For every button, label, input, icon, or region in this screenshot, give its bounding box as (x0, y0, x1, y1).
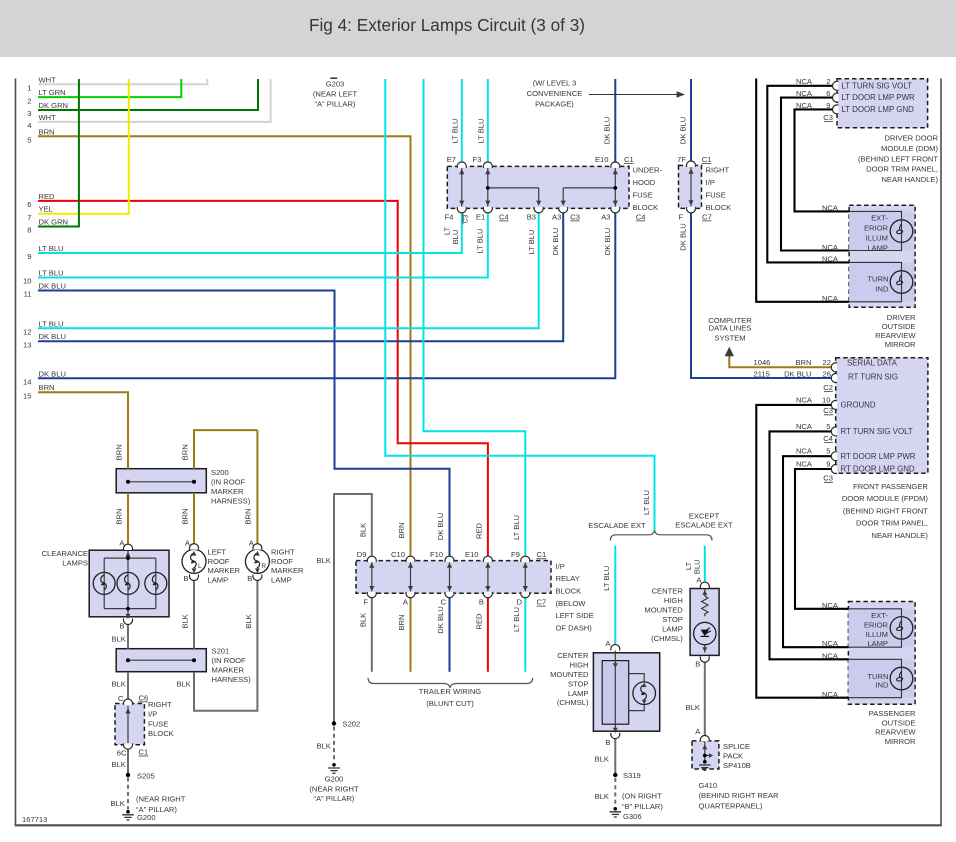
svg-text:FUSE: FUSE (633, 191, 653, 200)
svg-text:SPLICE: SPLICE (723, 742, 750, 751)
svg-text:B: B (183, 574, 188, 583)
svg-text:DRIVER: DRIVER (887, 313, 916, 322)
svg-text:C7: C7 (702, 212, 712, 221)
svg-text:BRN: BRN (39, 127, 55, 136)
svg-text:HARNESS): HARNESS) (212, 675, 252, 684)
svg-text:C6: C6 (139, 693, 149, 702)
svg-text:NCA: NCA (822, 690, 839, 699)
svg-text:BRN: BRN (397, 614, 406, 630)
svg-text:LT BLU: LT BLU (512, 515, 521, 540)
svg-text:167713: 167713 (22, 815, 47, 824)
svg-text:LT BLU: LT BLU (642, 490, 651, 515)
svg-text:LT BLU: LT BLU (527, 229, 536, 254)
svg-text:DK BLU: DK BLU (551, 228, 560, 255)
svg-text:LT BLU: LT BLU (39, 319, 64, 328)
svg-text:BLK: BLK (595, 792, 609, 801)
svg-text:(CHMSL): (CHMSL) (557, 698, 589, 707)
svg-text:STOP: STOP (568, 679, 589, 688)
svg-text:BLK: BLK (112, 760, 126, 769)
svg-text:(BELOW: (BELOW (556, 599, 587, 608)
svg-text:SP410B: SP410B (723, 761, 751, 770)
svg-text:MOUNTED: MOUNTED (644, 606, 683, 615)
svg-text:D9: D9 (357, 550, 367, 559)
svg-text:C3: C3 (823, 113, 833, 122)
svg-text:DOOR MODULE (FPDM): DOOR MODULE (FPDM) (842, 494, 929, 503)
svg-text:B: B (605, 738, 610, 747)
svg-text:DK BLU: DK BLU (603, 117, 612, 144)
svg-text:BLK: BLK (111, 799, 125, 808)
svg-text:NCA: NCA (796, 459, 813, 468)
svg-text:STOP: STOP (662, 615, 683, 624)
svg-text:LT GRN: LT GRN (39, 88, 66, 97)
svg-text:NCA: NCA (822, 651, 839, 660)
svg-text:PASSENGER: PASSENGER (869, 709, 916, 718)
svg-text:BLU: BLU (451, 230, 460, 245)
svg-text:S201: S201 (212, 647, 230, 656)
svg-text:(IN ROOF: (IN ROOF (212, 656, 247, 665)
svg-text:RIGHT: RIGHT (706, 166, 730, 175)
svg-text:TURN: TURN (867, 274, 888, 283)
svg-text:I/P: I/P (556, 562, 565, 571)
svg-text:B3: B3 (527, 212, 536, 221)
svg-text:DK BLU: DK BLU (436, 513, 445, 540)
svg-text:G306: G306 (623, 812, 642, 821)
svg-text:GROUND: GROUND (841, 401, 876, 410)
svg-text:B: B (119, 622, 124, 631)
svg-text:1: 1 (27, 84, 31, 93)
svg-text:WHT: WHT (39, 113, 57, 122)
svg-text:3: 3 (27, 109, 31, 118)
svg-text:BLK: BLK (181, 614, 190, 628)
svg-text:(NEAR RIGHT: (NEAR RIGHT (136, 795, 186, 804)
svg-text:C3: C3 (463, 214, 470, 223)
svg-text:LAMP: LAMP (208, 576, 229, 585)
svg-text:(W/ LEVEL 3: (W/ LEVEL 3 (533, 78, 577, 87)
svg-text:5: 5 (826, 447, 830, 456)
svg-text:Fig 4: Exterior Lamps Circuit: Fig 4: Exterior Lamps Circuit (3 of 3) (309, 15, 585, 35)
svg-text:(CHMSL): (CHMSL) (651, 634, 683, 643)
svg-text:HOOD: HOOD (633, 178, 656, 187)
svg-text:S202: S202 (343, 720, 361, 729)
svg-text:F: F (363, 598, 368, 607)
svg-text:E10: E10 (465, 550, 479, 559)
svg-text:HARNESS): HARNESS) (211, 497, 251, 506)
svg-text:BLU: BLU (693, 559, 702, 574)
svg-text:BLOCK: BLOCK (706, 203, 732, 212)
svg-text:BRN: BRN (39, 383, 55, 392)
svg-text:MODULE (DDM): MODULE (DDM) (881, 144, 938, 153)
svg-text:2: 2 (27, 96, 31, 105)
svg-text:BLK: BLK (244, 614, 253, 628)
svg-text:BLOCK: BLOCK (633, 203, 659, 212)
svg-text:F4: F4 (445, 212, 454, 221)
svg-text:OUTSIDE: OUTSIDE (882, 322, 916, 331)
svg-text:CENTER: CENTER (652, 587, 684, 596)
svg-text:C: C (441, 598, 447, 607)
svg-text:LT BLU: LT BLU (451, 118, 460, 143)
svg-text:B: B (247, 574, 252, 583)
svg-text:B: B (695, 660, 700, 669)
svg-text:S205: S205 (137, 771, 155, 780)
svg-text:SYSTEM: SYSTEM (714, 334, 745, 343)
svg-text:MOUNTED: MOUNTED (550, 670, 589, 679)
svg-text:S319: S319 (623, 771, 641, 780)
svg-text:LAMPS: LAMPS (62, 559, 88, 568)
svg-text:9: 9 (27, 252, 31, 261)
svg-text:DK BLU: DK BLU (679, 117, 688, 144)
svg-text:6C: 6C (117, 748, 127, 757)
svg-text:“A” PILLAR): “A” PILLAR) (315, 100, 356, 109)
svg-text:LT TURN SIG VOLT: LT TURN SIG VOLT (842, 81, 913, 90)
svg-text:ESCALADE EXT: ESCALADE EXT (588, 521, 646, 530)
svg-text:DOOR TRIM PANEL,: DOOR TRIM PANEL, (866, 165, 938, 174)
svg-text:R: R (261, 563, 266, 570)
svg-text:CLEARANCE: CLEARANCE (42, 549, 88, 558)
svg-text:RED: RED (475, 613, 484, 630)
svg-text:4: 4 (27, 121, 31, 130)
svg-text:C1: C1 (139, 747, 149, 756)
svg-text:NCA: NCA (822, 204, 839, 213)
svg-text:DOOR TRIM PANEL,: DOOR TRIM PANEL, (856, 519, 928, 528)
svg-text:LT BLU: LT BLU (477, 118, 486, 143)
svg-text:DK BLU: DK BLU (436, 606, 445, 633)
svg-text:C1: C1 (624, 155, 634, 164)
svg-text:PACK: PACK (723, 752, 743, 761)
svg-text:LT BLU: LT BLU (512, 607, 521, 632)
svg-text:LT BLU: LT BLU (39, 269, 64, 278)
svg-text:(BLUNT CUT): (BLUNT CUT) (426, 699, 474, 708)
svg-text:22: 22 (823, 358, 831, 367)
svg-text:BRN: BRN (244, 508, 253, 524)
svg-text:C4: C4 (636, 212, 646, 221)
svg-text:10: 10 (822, 395, 830, 404)
svg-text:7: 7 (27, 213, 31, 222)
svg-text:G203: G203 (326, 79, 345, 88)
svg-text:E7: E7 (447, 155, 456, 164)
svg-text:SERIAL DATA: SERIAL DATA (847, 359, 898, 368)
svg-text:EXT-: EXT- (871, 213, 888, 222)
svg-text:NCA: NCA (822, 243, 839, 252)
svg-text:26: 26 (823, 370, 831, 379)
svg-text:RIGHT: RIGHT (148, 700, 172, 709)
svg-text:2: 2 (826, 77, 830, 86)
svg-text:RT DOOR LMP PWR: RT DOOR LMP PWR (841, 452, 916, 461)
svg-text:BRN: BRN (180, 508, 189, 524)
svg-text:BLK: BLK (317, 742, 331, 751)
svg-text:ROOF: ROOF (271, 557, 293, 566)
svg-text:C10: C10 (391, 550, 405, 559)
svg-text:QUARTERPANEL): QUARTERPANEL) (699, 802, 763, 811)
svg-text:WHT: WHT (39, 75, 57, 84)
svg-text:HIGH: HIGH (570, 661, 589, 670)
svg-text:F3: F3 (473, 155, 482, 164)
svg-text:ILLUM: ILLUM (866, 234, 888, 243)
svg-text:NCA: NCA (796, 395, 813, 404)
svg-text:LEFT: LEFT (208, 547, 227, 556)
svg-text:BLK: BLK (359, 613, 368, 627)
svg-text:I/P: I/P (148, 710, 157, 719)
svg-text:14: 14 (23, 378, 31, 387)
svg-text:MIRROR: MIRROR (885, 737, 916, 746)
svg-text:NCA: NCA (796, 447, 813, 456)
svg-text:MARKER: MARKER (212, 666, 245, 675)
svg-text:6: 6 (826, 89, 830, 98)
svg-text:DK BLU: DK BLU (784, 370, 811, 379)
svg-text:A3: A3 (601, 212, 610, 221)
svg-text:BLK: BLK (359, 523, 368, 537)
svg-text:C1: C1 (537, 550, 547, 559)
svg-text:NCA: NCA (822, 639, 839, 648)
svg-text:BLOCK: BLOCK (148, 729, 174, 738)
svg-text:OUTSIDE: OUTSIDE (882, 718, 916, 727)
svg-text:L: L (198, 563, 202, 570)
svg-text:LEFT SIDE: LEFT SIDE (556, 611, 594, 620)
svg-text:LT BLU: LT BLU (602, 566, 611, 591)
svg-text:B: B (479, 598, 484, 607)
svg-text:C3: C3 (823, 406, 833, 415)
svg-text:9: 9 (826, 101, 830, 110)
svg-text:I/P: I/P (706, 178, 715, 187)
svg-text:(BEHIND RIGHT REAR: (BEHIND RIGHT REAR (699, 791, 780, 800)
svg-text:(NEAR RIGHT: (NEAR RIGHT (309, 784, 359, 793)
svg-text:NCA: NCA (796, 422, 813, 431)
svg-text:NEAR HANDLE): NEAR HANDLE) (881, 175, 938, 184)
svg-text:LAMP: LAMP (867, 639, 888, 648)
svg-text:TURN: TURN (867, 672, 888, 681)
svg-text:NCA: NCA (822, 255, 839, 264)
svg-text:DK BLU: DK BLU (39, 282, 66, 291)
svg-text:EXT-: EXT- (871, 611, 888, 620)
svg-text:ESCALADE EXT: ESCALADE EXT (675, 520, 733, 529)
svg-text:ERIOR: ERIOR (864, 223, 889, 232)
svg-text:EXCEPT: EXCEPT (689, 512, 720, 521)
svg-text:F9: F9 (511, 550, 520, 559)
svg-text:13: 13 (23, 340, 31, 349)
svg-text:MARKER: MARKER (271, 566, 304, 575)
svg-text:LAMP: LAMP (867, 243, 888, 252)
svg-text:REARVIEW: REARVIEW (875, 331, 916, 340)
svg-text:DK BLU: DK BLU (679, 223, 688, 250)
svg-text:DK GRN: DK GRN (39, 101, 69, 110)
svg-text:DK BLU: DK BLU (39, 369, 66, 378)
svg-text:C2: C2 (823, 383, 833, 392)
svg-text:NCA: NCA (822, 294, 839, 303)
svg-text:11: 11 (24, 290, 32, 299)
svg-text:YEL: YEL (39, 205, 53, 214)
svg-text:LT DOOR LMP GND: LT DOOR LMP GND (842, 105, 915, 114)
svg-text:C7: C7 (537, 598, 547, 607)
svg-text:6: 6 (27, 200, 31, 209)
svg-text:CENTER: CENTER (557, 651, 589, 660)
svg-text:9: 9 (826, 459, 830, 468)
svg-text:BLK: BLK (686, 703, 700, 712)
svg-text:RELAY: RELAY (556, 574, 580, 583)
svg-text:C1: C1 (702, 155, 712, 164)
svg-text:C4: C4 (823, 434, 833, 443)
svg-text:DK BLU: DK BLU (39, 332, 66, 341)
svg-text:G410: G410 (699, 781, 718, 790)
svg-text:ERIOR: ERIOR (864, 621, 889, 630)
svg-text:RT DOOR LMP GND: RT DOOR LMP GND (841, 465, 915, 474)
svg-text:DATA LINES: DATA LINES (709, 324, 752, 333)
svg-text:LT BLU: LT BLU (476, 228, 485, 253)
svg-text:BLK: BLK (595, 754, 609, 763)
svg-text:PACKAGE): PACKAGE) (535, 99, 574, 108)
svg-text:FRONT PASSENGER: FRONT PASSENGER (853, 482, 928, 491)
svg-text:MIRROR: MIRROR (885, 340, 916, 349)
svg-text:D: D (517, 598, 523, 607)
svg-text:12: 12 (23, 328, 31, 337)
svg-text:E10: E10 (595, 155, 609, 164)
svg-text:RED: RED (475, 522, 484, 539)
svg-text:FUSE: FUSE (148, 719, 168, 728)
svg-text:BRN: BRN (397, 522, 406, 538)
svg-text:BLK: BLK (177, 680, 191, 689)
svg-text:(BEHIND RIGHT FRONT: (BEHIND RIGHT FRONT (843, 506, 928, 515)
svg-text:8: 8 (27, 226, 31, 235)
svg-text:RT TURN SIG VOLT: RT TURN SIG VOLT (841, 427, 913, 436)
svg-text:“A” PILLAR): “A” PILLAR) (314, 794, 355, 803)
svg-text:IND: IND (875, 285, 889, 294)
svg-text:(ON RIGHT: (ON RIGHT (622, 792, 662, 801)
svg-text:G200: G200 (325, 775, 344, 784)
svg-text:UNDER-: UNDER- (633, 166, 663, 175)
svg-text:DK GRN: DK GRN (39, 218, 69, 227)
svg-text:LAMP: LAMP (568, 689, 589, 698)
svg-text:C: C (118, 694, 124, 703)
svg-text:OF DASH): OF DASH) (556, 623, 593, 632)
svg-text:LT BLU: LT BLU (39, 244, 64, 253)
svg-text:1046: 1046 (754, 358, 771, 367)
svg-text:NEAR HANDLE): NEAR HANDLE) (871, 531, 928, 540)
svg-text:BLK: BLK (112, 635, 126, 644)
svg-text:DK BLU: DK BLU (603, 228, 612, 255)
svg-text:ILLUM: ILLUM (866, 630, 888, 639)
svg-text:IND: IND (875, 681, 889, 690)
svg-text:A3: A3 (552, 212, 561, 221)
svg-text:2115: 2115 (754, 370, 770, 379)
svg-text:NCA: NCA (796, 89, 813, 98)
svg-text:MARKER: MARKER (211, 487, 244, 496)
svg-text:10: 10 (23, 277, 31, 286)
svg-text:ROOF: ROOF (208, 557, 230, 566)
svg-text:CONVENIENCE: CONVENIENCE (527, 89, 583, 98)
svg-text:BRN: BRN (114, 508, 123, 524)
svg-text:BLK: BLK (112, 680, 126, 689)
svg-text:MARKER: MARKER (208, 566, 241, 575)
svg-text:7F: 7F (677, 155, 686, 164)
svg-text:E1: E1 (476, 212, 485, 221)
svg-text:S200: S200 (211, 468, 229, 477)
svg-text:(BEHIND LEFT FRONT: (BEHIND LEFT FRONT (858, 154, 938, 163)
svg-text:F10: F10 (430, 550, 443, 559)
svg-text:BLK: BLK (317, 556, 331, 565)
svg-text:F: F (679, 212, 684, 221)
svg-text:LAMP: LAMP (271, 576, 292, 585)
svg-text:NCA: NCA (796, 77, 813, 86)
svg-text:5: 5 (27, 136, 31, 145)
svg-text:REARVIEW: REARVIEW (875, 728, 916, 737)
svg-text:BRN: BRN (180, 444, 189, 460)
svg-text:BRN: BRN (795, 358, 811, 367)
svg-text:RT TURN SIG: RT TURN SIG (848, 373, 898, 382)
svg-text:“B” PILLAR): “B” PILLAR) (622, 802, 663, 811)
svg-text:HIGH: HIGH (664, 596, 683, 605)
svg-text:(IN ROOF: (IN ROOF (211, 478, 246, 487)
svg-text:C3: C3 (823, 474, 833, 483)
svg-text:5: 5 (826, 422, 830, 431)
svg-text:BRN: BRN (114, 444, 123, 460)
svg-text:NCA: NCA (822, 601, 839, 610)
svg-text:LT DOOR LMP PWR: LT DOOR LMP PWR (842, 93, 916, 102)
svg-text:LAMP: LAMP (662, 625, 683, 634)
svg-text:(NEAR LEFT: (NEAR LEFT (313, 89, 358, 98)
svg-text:RED: RED (39, 192, 56, 201)
svg-text:RIGHT: RIGHT (271, 547, 295, 556)
svg-text:BLOCK: BLOCK (556, 587, 582, 596)
svg-text:C4: C4 (499, 212, 509, 221)
svg-text:C3: C3 (570, 212, 580, 221)
svg-text:FUSE: FUSE (706, 191, 726, 200)
svg-text:G200: G200 (137, 813, 156, 822)
svg-text:TRAILER WIRING: TRAILER WIRING (419, 687, 482, 696)
svg-text:15: 15 (23, 391, 31, 400)
svg-text:NCA: NCA (796, 101, 813, 110)
svg-text:DRIVER DOOR: DRIVER DOOR (884, 134, 938, 143)
